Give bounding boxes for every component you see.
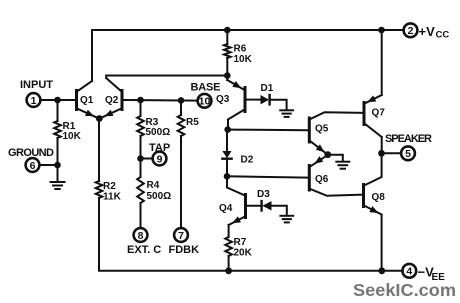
svg-text:6: 6 [30,160,36,172]
wire node to Q5 base [228,129,308,132]
pin 10 circle [198,94,212,108]
svg-text:FDBK: FDBK [169,244,200,256]
node D2 bottom [224,173,231,180]
node R3 top [137,97,144,104]
svg-text:10K: 10K [63,131,82,142]
wire node to ground [328,155,343,162]
wire pin1 to node [40,99,75,101]
wire R2 to bottom rail [99,198,403,271]
node input [54,97,61,104]
node R7 rail [225,267,232,274]
node Q8 rail [378,267,385,274]
pin 8 circle [134,228,148,242]
node ground [54,162,61,169]
wire emitters to R2 [98,119,100,182]
wire pin6 to node [39,164,57,166]
diode D2 [222,151,231,176]
resistor R4 [137,177,144,203]
svg-text:11K: 11K [103,192,122,203]
transistor Q8 [364,153,382,270]
node emitters Q1 Q2 [96,115,103,122]
svg-text:4: 4 [406,266,412,278]
resistor R6 [224,44,231,58]
svg-text:20K: 20K [234,248,253,259]
wire R4 to pin8 [140,203,142,228]
svg-text:1: 1 [31,95,37,107]
svg-text:2: 2 [408,25,414,37]
svg-text:EXT. C: EXT. C [127,244,161,256]
node Q3 collector [224,126,231,133]
wire node to ground [57,165,59,182]
pin 9 circle [153,152,167,166]
ground symbol D1 [280,110,293,117]
node top rail / R6 [224,27,231,34]
wire R6 to node [226,58,228,80]
svg-text:Q6: Q6 [315,174,329,185]
resistor R1 [54,121,61,138]
node tap [137,155,144,162]
svg-text:Q1: Q1 [80,95,94,106]
svg-text:R5: R5 [186,117,199,128]
svg-text:Q8: Q8 [372,192,386,203]
svg-text:SeekIC.com: SeekIC.com [353,280,456,300]
transistor Q6 [309,155,362,196]
wire R5 top lead [180,100,182,115]
wire R1 to ground node [57,138,59,165]
svg-text:R2: R2 [103,181,116,192]
pin 6 circle [26,158,40,172]
svg-text:500Ω: 500Ω [146,127,171,138]
wire R3 top lead [140,100,142,116]
resistor R5 [178,115,185,136]
node R6 bottom [224,72,231,79]
svg-text:+V: +V [419,24,436,39]
wire Q4 base to D3 [247,205,262,207]
svg-text:GROUND: GROUND [8,147,54,159]
svg-text:D2: D2 [241,155,254,166]
wire node to Q6 base [227,176,307,177]
resistor R2 [96,181,103,198]
svg-text:500Ω: 500Ω [147,191,172,202]
pin 5 circle [401,146,415,160]
pin 4 circle [402,264,416,278]
transistor Q3 [227,80,245,130]
svg-text:8: 8 [138,230,144,242]
ground symbol D3 [280,216,293,223]
svg-text:SPEAKER: SPEAKER [385,133,432,145]
svg-text:CC: CC [436,30,450,41]
node Q5 Q6 emitters [324,151,331,158]
wire Q3 base to D1 [247,99,261,101]
diode D3 [262,201,287,215]
diode D1 [261,95,287,110]
transistor Q7 [364,30,382,153]
wire node to pin5 [382,152,402,154]
transistor Q1 [77,81,100,119]
wire top rail [92,30,404,81]
node speaker [378,150,385,157]
ground symbol main [51,182,65,189]
wire R5 to pin7 [180,136,182,228]
resistor R3 [137,116,144,136]
svg-text:R7: R7 [234,237,247,248]
transistor Q4 [227,176,246,237]
node top rail / Q7 [378,27,385,34]
node R5 top [178,97,185,104]
wire R3 to tap node [140,136,142,177]
pin 7 circle [174,228,188,242]
svg-text:Q4: Q4 [219,203,233,214]
transistor Q5 [309,112,362,155]
wire R7 to rail [228,256,230,271]
svg-text:Q7: Q7 [372,108,386,119]
wire node to R1 [57,100,59,121]
svg-text:9: 9 [157,153,163,165]
svg-text:D3: D3 [257,189,270,200]
svg-text:5: 5 [405,148,411,160]
svg-text:INPUT: INPUT [20,79,53,91]
svg-text:7: 7 [178,230,184,242]
ground symbol Q5Q6 [336,162,349,169]
svg-text:10K: 10K [234,54,253,65]
svg-text:TAP: TAP [149,142,170,154]
wire base line Q2 to pin10 [123,99,198,102]
resistor R7 [225,237,232,256]
svg-text:Q3: Q3 [216,94,230,105]
wire node to D2 [226,130,228,151]
svg-text:BASE: BASE [191,82,221,94]
pin 1 circle [27,93,41,107]
svg-text:R4: R4 [147,180,160,191]
wire R6 top lead [226,30,228,44]
transistor Q2 [100,76,228,119]
svg-text:10: 10 [199,96,211,108]
pin 2 circle [404,23,418,37]
svg-text:Q2: Q2 [105,95,119,106]
wire tap to pin9 [141,158,153,160]
svg-text:D1: D1 [261,83,274,94]
svg-text:Q5: Q5 [315,124,329,135]
